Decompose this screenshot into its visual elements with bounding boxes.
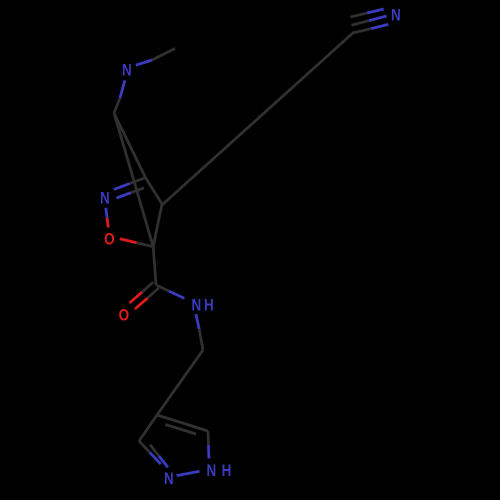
svg-text:O: O	[104, 230, 115, 249]
amide C-N bond	[156, 285, 169, 291]
isoxazoline N2=C3 double bond main line	[114, 184, 130, 190]
nitrile triple bond lower line	[354, 29, 371, 33]
svg-text:N: N	[100, 189, 110, 208]
isoxazoline O1-C5 bond	[120, 239, 137, 243]
carbonyl C=O double bond upper line	[142, 282, 153, 292]
wire CH2 to isoxazoline C3	[114, 113, 146, 178]
wire CH2 to pyrazole C4'	[157, 350, 203, 415]
amine N-CH3 bond	[136, 60, 152, 65]
carbonyl C=O double bond lower line	[148, 288, 159, 298]
pyrazole C3'=N2' double bond main line	[139, 441, 150, 453]
svg-text:N: N	[391, 6, 401, 25]
nitrile triple bond center line	[351, 21, 369, 26]
pyrazole C3'=N2' double bond inner line	[150, 445, 159, 456]
svg-text:N: N	[191, 296, 201, 315]
pyrazole N2'-N1' bond	[177, 471, 200, 475]
amide N-CH2 bond	[196, 314, 199, 329]
pyrazole N1'-C5' bond	[207, 445, 210, 459]
svg-text:N: N	[206, 461, 216, 480]
svg-text:N: N	[164, 469, 174, 488]
isoxazoline C3-C4 bond	[146, 178, 163, 204]
amine N-CH2 bond	[120, 80, 125, 98]
svg-text:H: H	[222, 461, 232, 480]
svg-text:O: O	[119, 306, 130, 325]
svg-text:N: N	[122, 60, 132, 79]
pyrazole C5'-C4' bond	[157, 415, 208, 431]
svg-text:H: H	[204, 296, 214, 315]
isoxazoline N2-O1 bond	[106, 208, 107, 218]
wire C5-carbonyl bond	[153, 247, 156, 285]
isoxazoline N2=C3 double bond inner line	[117, 193, 132, 198]
nitrile triple bond upper line	[350, 13, 367, 17]
wire CH2 to isoxazoline C5	[114, 113, 153, 247]
wire chain from C4 up to nitrile carbon (squashed ring chain)	[162, 32, 354, 205]
isoxazoline C4-C5 bond	[153, 204, 162, 247]
pyrazole C4'-C3' bond	[139, 415, 157, 441]
pyrazole C4'=C5' double bond inner line	[165, 424, 196, 434]
